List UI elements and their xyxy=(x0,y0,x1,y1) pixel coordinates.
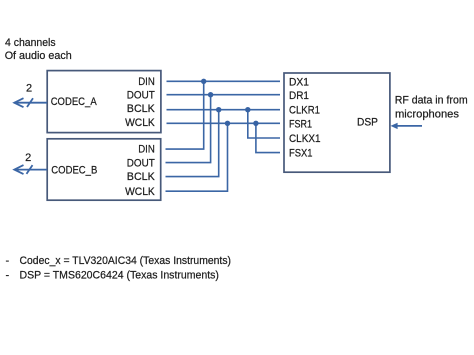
svg-text:DIN: DIN xyxy=(138,144,155,156)
bus arrow CODEC_A xyxy=(14,98,47,107)
junction BCLK right xyxy=(245,107,250,112)
RF input arrow xyxy=(391,123,423,129)
svg-text:Codec_x = TLV320AIC34 (Texas I: Codec_x = TLV320AIC34 (Texas Instruments… xyxy=(20,255,232,267)
value label DSP part number xyxy=(6,269,219,281)
svg-text:DSP = TMS620C6424 (Texas Instr: DSP = TMS620C6424 (Texas Instruments) xyxy=(20,269,219,281)
svg-text:-: - xyxy=(6,269,10,281)
wire CODEC_B WCLK branch xyxy=(166,123,228,191)
svg-text:DOUT: DOUT xyxy=(127,89,155,101)
svg-text:BCLK: BCLK xyxy=(127,171,156,183)
svg-text:BCLK: BCLK xyxy=(127,103,156,115)
svg-text:DIN: DIN xyxy=(138,76,155,88)
svg-text:Of audio each: Of audio each xyxy=(5,50,72,62)
wire DIN-DX1 xyxy=(167,80,281,82)
wire FSX1 branch xyxy=(256,123,280,152)
wire WCLK-FSR1 xyxy=(167,122,281,124)
wire CODEC_B DIN branch xyxy=(166,81,204,149)
svg-text:FSR1: FSR1 xyxy=(289,118,312,130)
wire DOUT-DR1 xyxy=(167,94,281,96)
junction DIN xyxy=(201,79,206,84)
junction BCLK left xyxy=(216,107,221,112)
svg-text:WCLK: WCLK xyxy=(125,117,155,129)
note: RF data in from microphones xyxy=(395,94,468,120)
svg-text:2: 2 xyxy=(26,83,32,95)
block CODEC_B xyxy=(47,139,161,200)
wire CODEC_B DOUT branch xyxy=(166,95,211,163)
svg-text:CODEC_B: CODEC_B xyxy=(51,164,97,176)
bus arrow CODEC_B xyxy=(14,165,47,174)
wire CLKX1 branch xyxy=(248,110,280,138)
svg-text:DOUT: DOUT xyxy=(127,157,155,169)
junction WCLK right xyxy=(253,121,258,126)
note: 4 channels of audio each xyxy=(5,37,72,62)
svg-text:FSX1: FSX1 xyxy=(289,148,313,160)
svg-text:microphones: microphones xyxy=(395,108,459,120)
wire BCLK-CLKR1 xyxy=(167,109,281,111)
junction WCLK left xyxy=(225,121,230,126)
svg-text:2: 2 xyxy=(25,152,31,164)
svg-text:DR1: DR1 xyxy=(289,90,309,102)
svg-text:WCLK: WCLK xyxy=(125,186,155,198)
block CODEC_A xyxy=(47,71,161,133)
svg-text:RF data in from: RF data in from xyxy=(395,94,468,106)
svg-text:-: - xyxy=(6,255,10,267)
wire CODEC_B BCLK branch xyxy=(166,110,219,177)
svg-text:CLKR1: CLKR1 xyxy=(289,105,320,117)
svg-text:DX1: DX1 xyxy=(289,77,309,89)
svg-text:CODEC_A: CODEC_A xyxy=(51,96,98,108)
svg-text:DSP: DSP xyxy=(357,116,378,128)
svg-text:CLKX1: CLKX1 xyxy=(289,133,321,145)
value label Codec_x part number xyxy=(6,255,232,267)
junction DOUT xyxy=(208,92,213,97)
block DSP xyxy=(284,73,390,172)
svg-text:4 channels: 4 channels xyxy=(5,37,56,49)
